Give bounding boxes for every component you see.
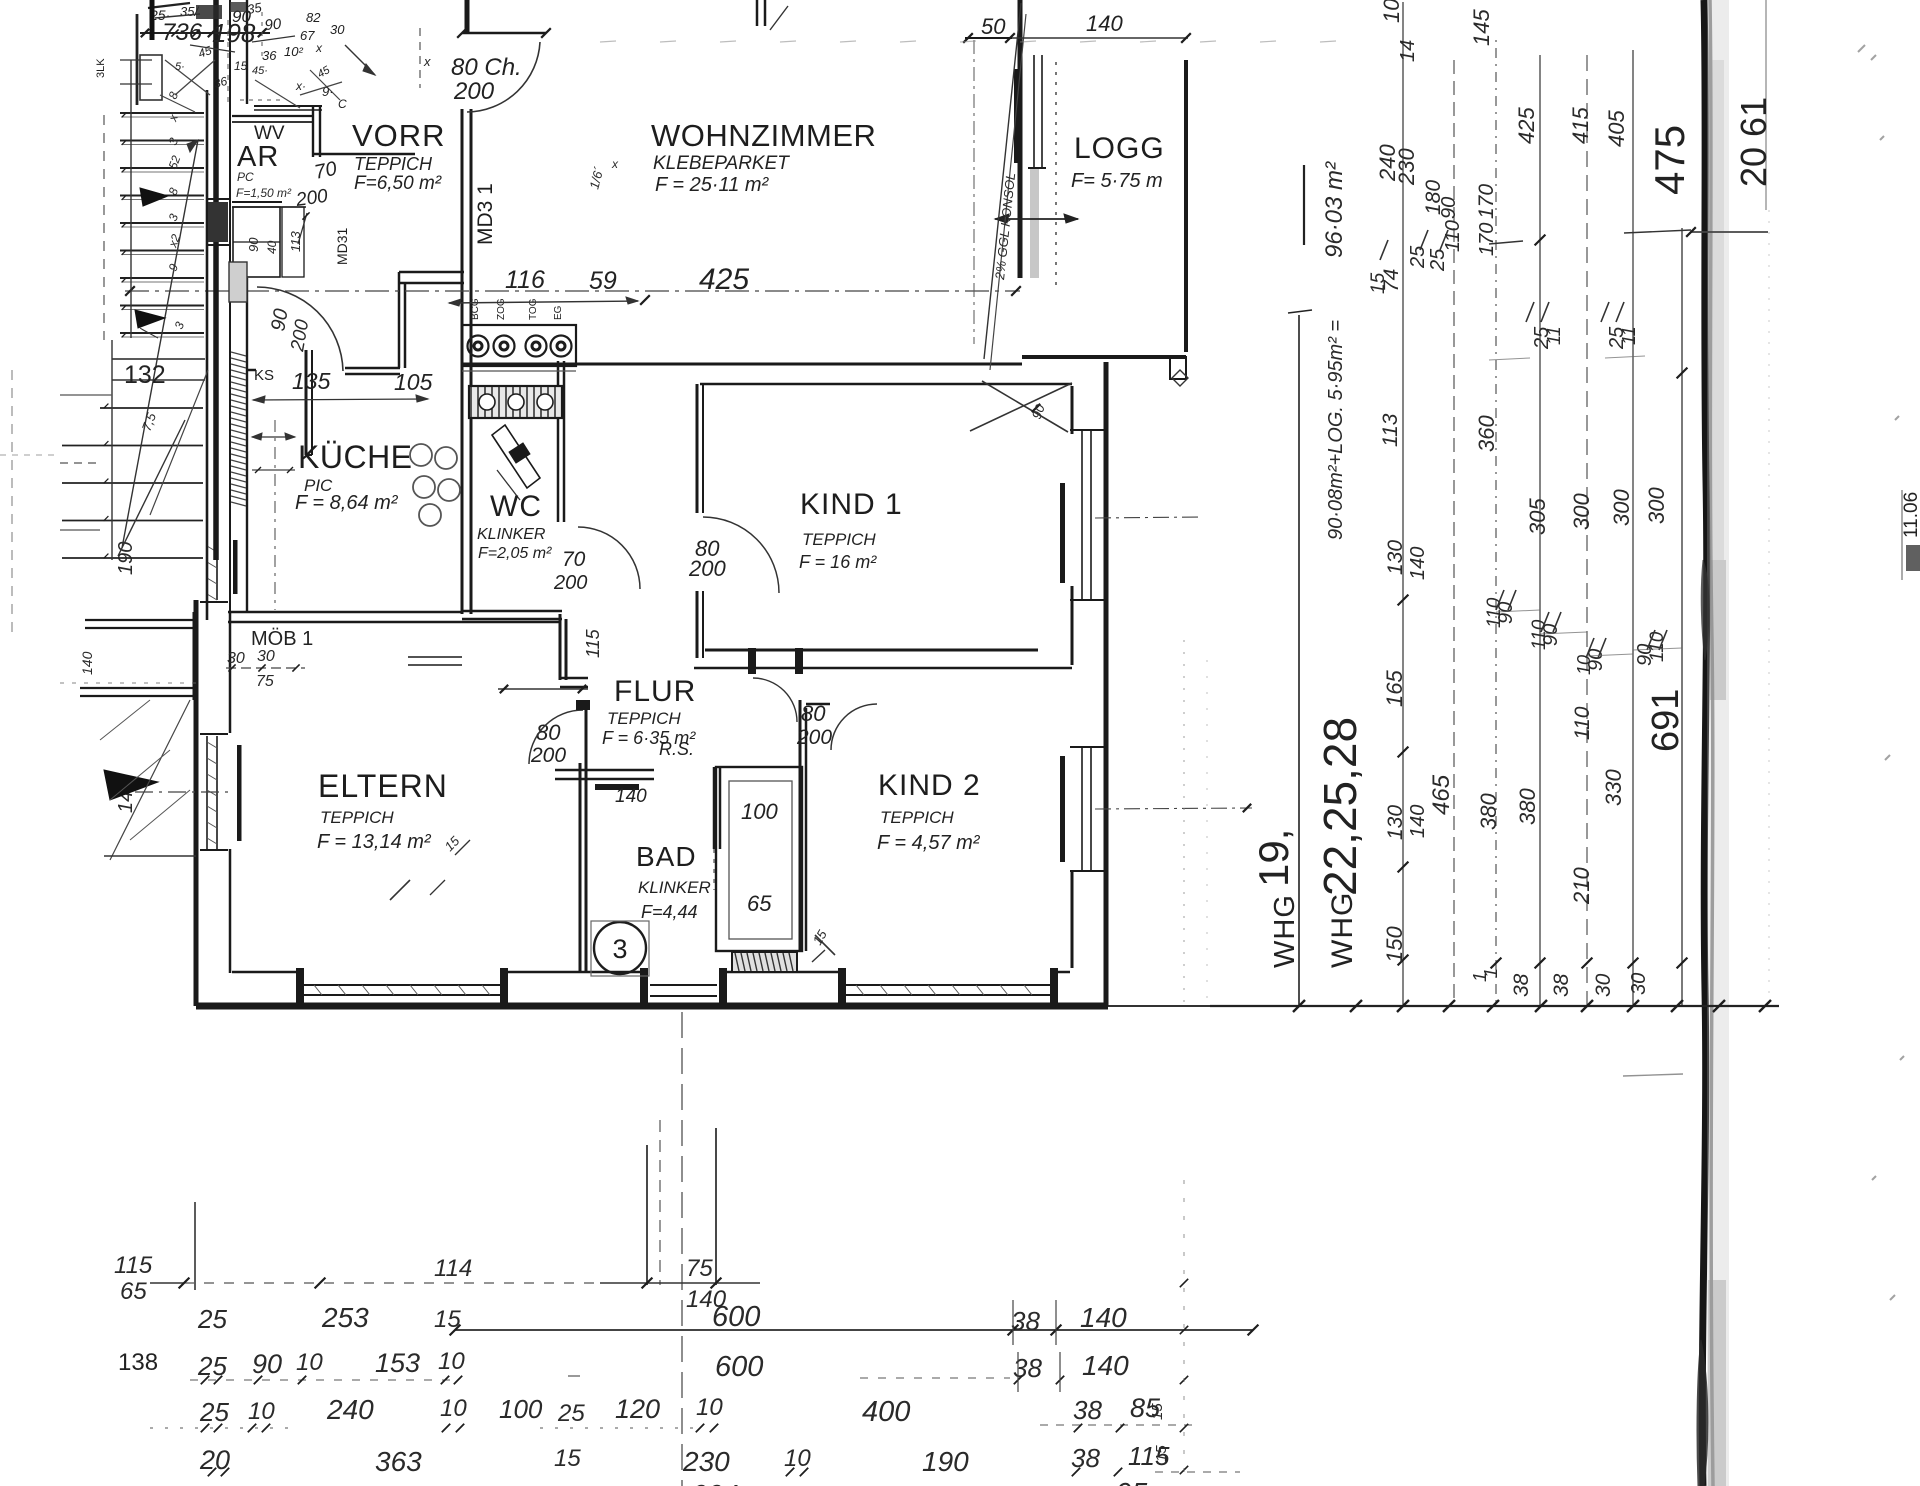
svg-text:F=1,50 m²: F=1,50 m²: [236, 186, 292, 200]
svg-text:200: 200: [688, 556, 726, 581]
svg-text:90: 90: [246, 237, 261, 252]
svg-text:KIND 1: KIND 1: [800, 488, 903, 521]
svg-text:145: 145: [1469, 9, 1494, 46]
svg-text:105: 105: [394, 369, 433, 395]
svg-text:WHG: WHG: [1269, 894, 1301, 968]
svg-text:170: 170: [1475, 184, 1498, 219]
svg-text:36: 36: [262, 48, 277, 63]
svg-text:150: 150: [1382, 926, 1407, 963]
svg-text:140: 140: [1082, 1350, 1129, 1381]
svg-text:PC: PC: [237, 170, 254, 184]
svg-text:140: 140: [1086, 11, 1123, 36]
svg-text:KS: KS: [254, 367, 274, 384]
svg-text:132: 132: [124, 361, 166, 389]
svg-text:TEPPICH: TEPPICH: [880, 808, 954, 827]
svg-text:165: 165: [1382, 670, 1407, 707]
svg-text:100: 100: [741, 799, 778, 824]
svg-text:475: 475: [1646, 125, 1693, 195]
svg-text:305: 305: [1525, 498, 1550, 535]
svg-text:70: 70: [562, 548, 586, 571]
svg-text:994: 994: [692, 1479, 739, 1486]
svg-text:230: 230: [682, 1446, 730, 1477]
svg-text:F = 8,64 m²: F = 8,64 m²: [295, 492, 399, 514]
svg-text:BCG: BCG: [470, 298, 481, 320]
svg-text:82: 82: [306, 10, 321, 25]
svg-text:KLEBEPARKET: KLEBEPARKET: [653, 153, 790, 174]
svg-text:TEPPICH: TEPPICH: [802, 530, 876, 549]
svg-text:600: 600: [712, 1301, 760, 1333]
svg-text:200: 200: [553, 572, 587, 594]
svg-text:EG: EG: [553, 305, 564, 320]
svg-text:130: 130: [1384, 540, 1407, 575]
svg-text:11.06: 11.06: [1901, 492, 1920, 538]
svg-text:120: 120: [615, 1394, 660, 1424]
svg-text:10: 10: [438, 1348, 465, 1375]
svg-text:15: 15: [234, 59, 248, 73]
svg-text:230: 230: [1394, 148, 1419, 186]
svg-text:38: 38: [1071, 1443, 1100, 1473]
svg-text:40: 40: [265, 240, 279, 254]
svg-text:110: 110: [1571, 706, 1594, 740]
svg-text:15: 15: [1368, 272, 1389, 294]
svg-text:TEPPICH: TEPPICH: [320, 808, 394, 827]
svg-text:380: 380: [1476, 793, 1501, 830]
svg-text:115: 115: [583, 628, 603, 658]
svg-text:MD31: MD31: [334, 227, 350, 265]
svg-text:67: 67: [300, 28, 315, 43]
svg-text:3: 3: [612, 934, 627, 964]
svg-text:200: 200: [796, 726, 832, 749]
svg-text:20 61: 20 61: [1733, 97, 1774, 187]
svg-text:600: 600: [715, 1351, 763, 1383]
svg-text:300: 300: [1644, 487, 1669, 524]
svg-text:110: 110: [1529, 619, 1550, 650]
svg-text:90: 90: [264, 16, 283, 34]
svg-text:x: x: [611, 157, 619, 171]
svg-text:75: 75: [686, 1255, 713, 1282]
svg-text:140: 140: [1407, 547, 1429, 580]
svg-text:90: 90: [267, 307, 293, 333]
svg-text:380: 380: [1515, 788, 1540, 825]
svg-text:65: 65: [120, 1278, 147, 1305]
svg-text:80: 80: [801, 701, 826, 726]
svg-text:200: 200: [453, 78, 495, 105]
svg-text:VORR: VORR: [352, 118, 446, 153]
svg-text:1: 1: [1481, 968, 1501, 978]
svg-text:75: 75: [256, 673, 274, 690]
svg-text:WOHNZIMMER: WOHNZIMMER: [651, 118, 876, 153]
svg-text:45·: 45·: [252, 65, 268, 77]
svg-text:F = 4,57 m²: F = 4,57 m²: [877, 832, 981, 854]
svg-text:140: 140: [1080, 1302, 1127, 1333]
svg-text:WHG: WHG: [1326, 892, 1359, 968]
svg-text:70: 70: [312, 158, 338, 184]
svg-text:691: 691: [1645, 689, 1687, 752]
svg-text:90·08m²+LOG. 5·95m² =: 90·08m²+LOG. 5·95m² =: [1325, 320, 1347, 540]
svg-text:KLINKER: KLINKER: [477, 526, 546, 543]
svg-text:190: 190: [922, 1446, 969, 1477]
svg-text:140: 140: [1407, 805, 1429, 838]
svg-text:LOGG: LOGG: [1074, 132, 1165, 165]
svg-text:140: 140: [79, 651, 95, 675]
svg-text:113: 113: [288, 231, 303, 252]
svg-text:F = 16 m²: F = 16 m²: [799, 552, 877, 572]
svg-text:x: x: [315, 41, 323, 55]
svg-text:19,: 19,: [1250, 829, 1297, 887]
svg-text:10: 10: [696, 1394, 723, 1421]
svg-text:405: 405: [1604, 110, 1629, 147]
svg-text:135: 135: [292, 368, 331, 394]
svg-text:360: 360: [1474, 415, 1499, 452]
svg-text:25: 25: [1427, 248, 1449, 272]
svg-text:210: 210: [1569, 867, 1594, 905]
svg-text:105: 105: [1379, 0, 1404, 23]
svg-text:ZOG: ZOG: [496, 298, 507, 320]
svg-text:110: 110: [1484, 597, 1505, 628]
svg-text:65: 65: [747, 891, 772, 916]
svg-text:38: 38: [1550, 973, 1573, 997]
svg-text:BAD: BAD: [636, 841, 697, 872]
svg-text:153: 153: [375, 1348, 420, 1378]
svg-text:400: 400: [862, 1396, 910, 1428]
svg-text:363: 363: [375, 1446, 422, 1477]
svg-text:100: 100: [499, 1394, 543, 1424]
svg-text:415: 415: [1568, 107, 1593, 144]
svg-text:R.S.: R.S.: [659, 739, 694, 759]
svg-text:253: 253: [321, 1302, 369, 1333]
svg-text:130: 130: [1384, 805, 1407, 840]
svg-text:10: 10: [248, 1398, 275, 1425]
svg-text:30: 30: [330, 22, 345, 37]
svg-text:15: 15: [1153, 1445, 1170, 1462]
svg-text:30: 30: [257, 648, 275, 665]
svg-text:425: 425: [699, 263, 749, 296]
svg-text:140: 140: [615, 786, 647, 807]
svg-text:5·: 5·: [175, 61, 185, 73]
svg-text:90: 90: [1438, 197, 1460, 219]
svg-text:38: 38: [1011, 1306, 1040, 1336]
svg-text:465: 465: [1428, 774, 1455, 815]
svg-text:F=2,05 m²: F=2,05 m²: [478, 545, 552, 562]
svg-text:KÜCHE: KÜCHE: [298, 439, 413, 475]
svg-text:138: 138: [118, 1349, 158, 1376]
svg-text:TEPPICH: TEPPICH: [607, 709, 681, 728]
svg-text:KLINKER: KLINKER: [638, 878, 711, 897]
svg-text:300: 300: [1569, 493, 1594, 530]
svg-text:ELTERN: ELTERN: [318, 768, 448, 804]
svg-text:22,25,28: 22,25,28: [1314, 717, 1366, 896]
svg-text:x: x: [423, 54, 431, 69]
svg-text:TEPPICH: TEPPICH: [354, 154, 433, 174]
svg-text:115: 115: [114, 1252, 153, 1279]
svg-text:AR: AR: [237, 141, 279, 173]
svg-text:25: 25: [197, 1304, 227, 1334]
svg-text:30: 30: [1628, 973, 1650, 995]
svg-text:MÖB 1: MÖB 1: [251, 628, 313, 650]
svg-text:11: 11: [1619, 326, 1639, 345]
svg-text:116: 116: [505, 266, 545, 294]
svg-text:425: 425: [1514, 107, 1539, 144]
svg-text:F = 13,14 m²: F = 13,14 m²: [317, 831, 432, 853]
svg-text:25: 25: [1407, 245, 1429, 269]
svg-text:25: 25: [197, 1351, 227, 1381]
svg-text:300: 300: [1609, 489, 1634, 526]
svg-text:WC: WC: [490, 490, 542, 523]
svg-text:200: 200: [530, 744, 566, 767]
svg-text:10: 10: [296, 1349, 323, 1376]
svg-text:KIND 2: KIND 2: [878, 769, 981, 802]
svg-text:90: 90: [252, 1349, 282, 1379]
svg-text:3LK: 3LK: [95, 58, 107, 78]
svg-text:170: 170: [1476, 223, 1498, 256]
svg-text:25: 25: [557, 1400, 585, 1427]
svg-text:80 Ch.: 80 Ch.: [451, 54, 522, 81]
svg-text:MD3 1: MD3 1: [474, 183, 497, 245]
svg-text:38: 38: [1073, 1395, 1102, 1425]
svg-text:F=4,44: F=4,44: [641, 902, 698, 922]
svg-text:C: C: [338, 97, 347, 111]
svg-text:14: 14: [1397, 40, 1419, 62]
svg-text:96·03 m²: 96·03 m²: [1321, 161, 1348, 258]
svg-text:11: 11: [1544, 326, 1564, 345]
svg-text:114: 114: [434, 1255, 472, 1282]
svg-text:30: 30: [1592, 973, 1615, 997]
svg-text:240: 240: [326, 1394, 374, 1425]
svg-text:x·: x·: [295, 79, 306, 93]
svg-text:F= 5·75 m: F= 5·75 m: [1071, 170, 1163, 192]
svg-text:95: 95: [1116, 1477, 1148, 1486]
svg-text:F = 25·11 m²: F = 25·11 m²: [655, 174, 770, 196]
svg-text:50: 50: [981, 14, 1006, 39]
svg-text:25: 25: [199, 1397, 229, 1427]
svg-text:F=6,50 m²: F=6,50 m²: [354, 173, 442, 194]
svg-text:10: 10: [440, 1395, 467, 1422]
svg-text:FLUR: FLUR: [614, 675, 696, 708]
svg-text:10²: 10²: [284, 44, 303, 59]
svg-text:30: 30: [227, 650, 245, 667]
svg-text:15: 15: [1149, 1403, 1166, 1420]
svg-text:38: 38: [1510, 973, 1533, 997]
svg-text:113: 113: [1379, 413, 1402, 447]
svg-text:15: 15: [554, 1445, 581, 1472]
svg-text:330: 330: [1601, 769, 1626, 806]
svg-text:10: 10: [1574, 655, 1594, 675]
